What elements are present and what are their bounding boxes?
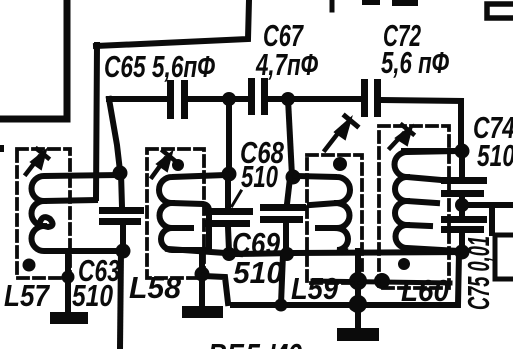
wire: tap vertical into L57 bbox=[96, 45, 97, 198]
node: tank1 bottom junction bbox=[116, 244, 131, 259]
wire: C69 bottom stem bbox=[283, 223, 289, 251]
node: tank3 top junction bbox=[286, 170, 301, 185]
inductor L60 bbox=[394, 151, 458, 251]
wire: corner down to tank4 bbox=[458, 101, 464, 152]
wire: left edge stub bbox=[0, 145, 4, 152]
node: rail dot 2 bbox=[349, 299, 362, 312]
svg-text:С75 0,01: С75 0,01 bbox=[461, 236, 496, 310]
svg-text:510: 510 bbox=[477, 138, 513, 173]
capacitor C68 bbox=[205, 208, 253, 227]
node: output junction bbox=[455, 198, 469, 212]
ground bar tank2 bbox=[182, 306, 223, 318]
wire: C63 bottom stem bbox=[120, 225, 126, 249]
tuning arrow L60 bbox=[390, 125, 413, 148]
inductor L57 bbox=[32, 175, 119, 251]
node: junction C65/C67 bbox=[222, 92, 236, 106]
wire: tank4 top lead to column bbox=[404, 148, 459, 154]
wire: left input vertical with corner to left edge bbox=[0, 0, 67, 119]
svg-text:L58: L58 bbox=[129, 270, 182, 305]
wire: tank2 bottom lead / bus start bbox=[168, 249, 240, 254]
node: tank4 top junction bbox=[455, 144, 470, 159]
capacitor C69 bbox=[260, 204, 306, 223]
inductor L59 (mirrored) bbox=[296, 176, 350, 251]
ground bar tank1 bbox=[50, 312, 88, 324]
phasing dot L59 bbox=[333, 157, 347, 171]
wire: tank3 ground column bbox=[355, 251, 361, 328]
tuning arrow L59 bbox=[325, 116, 357, 150]
capacitor C72 bbox=[361, 79, 381, 117]
wire: stem to C68 bbox=[225, 174, 231, 208]
svg-text:510: 510 bbox=[72, 278, 113, 313]
tuning arrow L57 bbox=[26, 149, 48, 174]
wire: branch down to next stage box bbox=[489, 206, 495, 233]
wire: C65-C67-C72 top line, left corner down to tank1 top bbox=[109, 96, 166, 102]
capacitor C74 bbox=[441, 177, 487, 197]
dashed box L59 bbox=[307, 155, 362, 283]
phasing dot L58 bbox=[172, 159, 184, 171]
node: rail dot 1 bbox=[275, 299, 288, 312]
wire: upper coupling line (tap line) with corner up at right bbox=[96, 0, 249, 46]
dashed box L58 bbox=[147, 149, 204, 278]
wire: top stub bbox=[330, 0, 335, 10]
svg-text:510: 510 bbox=[233, 255, 283, 290]
node: C68 bottom junction bbox=[222, 247, 236, 261]
wire: ground rail bbox=[233, 253, 459, 305]
node: tank2 top junction bbox=[222, 167, 237, 182]
wire: C75 bottom stem bbox=[459, 233, 465, 250]
ground tank1 bbox=[65, 251, 71, 313]
wire: tank1 column stem to C63 bbox=[121, 173, 122, 207]
ground tank2 bbox=[199, 254, 205, 307]
wire: stem to C74 bbox=[459, 152, 465, 177]
inductor L58 bbox=[159, 175, 226, 250]
wire: link to ground rail bbox=[204, 276, 228, 303]
node: tank2 ground junction bbox=[195, 267, 210, 282]
svg-text:С65 5,6пФ: С65 5,6пФ bbox=[104, 49, 216, 84]
capacitor C63 bbox=[99, 207, 144, 225]
wire: ground bus (tanks2-4) bbox=[238, 252, 465, 254]
node: rail dot center bbox=[349, 295, 367, 313]
wire: stem C74-C75 bbox=[459, 197, 465, 217]
node: junction C67/C72 bbox=[281, 92, 295, 106]
wire: long vertical to bottom edge bbox=[120, 251, 121, 349]
svg-text:L59: L59 bbox=[291, 271, 339, 306]
node on L57 box bottom bbox=[62, 271, 75, 284]
winding dot L57 bbox=[23, 259, 36, 272]
wire: output to right edge bbox=[462, 202, 513, 208]
node: tank1 top junction bbox=[113, 166, 128, 181]
wire: stem to C69 bbox=[287, 178, 290, 204]
dashed box L60 bbox=[379, 126, 449, 288]
svg-text:510: 510 bbox=[241, 159, 278, 194]
node: tank4 bottom junction bbox=[455, 245, 470, 260]
svg-text:ВБ5-И0: ВБ5-И0 bbox=[208, 337, 302, 349]
svg-text:5,6 пФ: 5,6 пФ bbox=[381, 45, 450, 80]
svg-text:4,7пФ: 4,7пФ bbox=[255, 47, 318, 82]
winding dot L60 bbox=[398, 258, 410, 270]
node: tie line dot left bbox=[349, 272, 367, 290]
svg-text:L57: L57 bbox=[4, 278, 50, 313]
top cut marks bbox=[362, 0, 418, 6]
wire: box3/box4 bottom tie line bbox=[313, 281, 450, 283]
wire bbox=[378, 100, 461, 101]
wire: tank3 column from top line bbox=[288, 99, 292, 176]
capacitor C67 bbox=[248, 78, 268, 115]
svg-text:L60: L60 bbox=[401, 273, 449, 308]
tuning arrow L58 bbox=[152, 151, 174, 177]
node: tie line dot right bbox=[374, 273, 390, 289]
dashed box L57 bbox=[17, 149, 70, 278]
block: next stage partial box bbox=[495, 235, 513, 279]
block: top-right partial box bbox=[487, 4, 513, 18]
wire: C68 bottom stem bbox=[228, 227, 229, 251]
capacitor C65 bbox=[167, 80, 188, 119]
node: C69 bottom junction bbox=[280, 247, 294, 261]
ground bar tanks3-4 bbox=[337, 328, 379, 341]
wire bbox=[189, 96, 246, 102]
capacitor C75 bbox=[441, 216, 487, 233]
label pointer C68 bbox=[232, 191, 241, 206]
wire: tank2 column from top line bbox=[226, 99, 232, 172]
wire: drop C69 node to rail bbox=[281, 254, 283, 304]
wire bbox=[269, 96, 359, 102]
